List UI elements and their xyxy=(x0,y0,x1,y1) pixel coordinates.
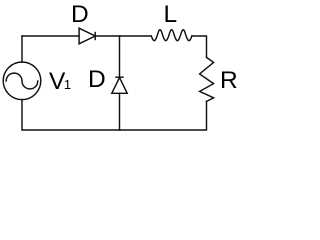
wire top-left: top wire from left rail to diode D1 anode xyxy=(22,35,79,37)
diode D1 (series, pointing right) xyxy=(79,28,95,44)
inductor L (sine-coil) xyxy=(151,30,192,41)
label V1 for source xyxy=(49,70,71,98)
wire: diode D1 cathode to top junction xyxy=(95,35,119,37)
label D for diode D1 xyxy=(71,3,89,28)
wire: bottom rail from shunt branch to source V1 xyxy=(22,100,120,130)
wire: top junction to inductor L xyxy=(120,35,152,37)
wire: inductor L to top-right corner xyxy=(192,36,207,57)
diode D2 (shunt, pointing up) xyxy=(112,77,127,93)
source V1 (AC sine source) xyxy=(3,62,41,100)
wire: diode D2 anode down to bottom rail xyxy=(119,93,121,130)
label L for inductor xyxy=(164,3,178,28)
label R for resistor xyxy=(220,69,238,94)
label D for diode D2 xyxy=(88,68,106,93)
wire: shunt branch from top junction down to diode D2 cathode xyxy=(119,36,121,77)
resistor R (vertical zigzag) xyxy=(200,57,214,101)
wire: resistor R to bottom-right corner and bottom rail xyxy=(120,101,207,130)
wire: source V1 top lead to top-left corner xyxy=(21,36,23,62)
